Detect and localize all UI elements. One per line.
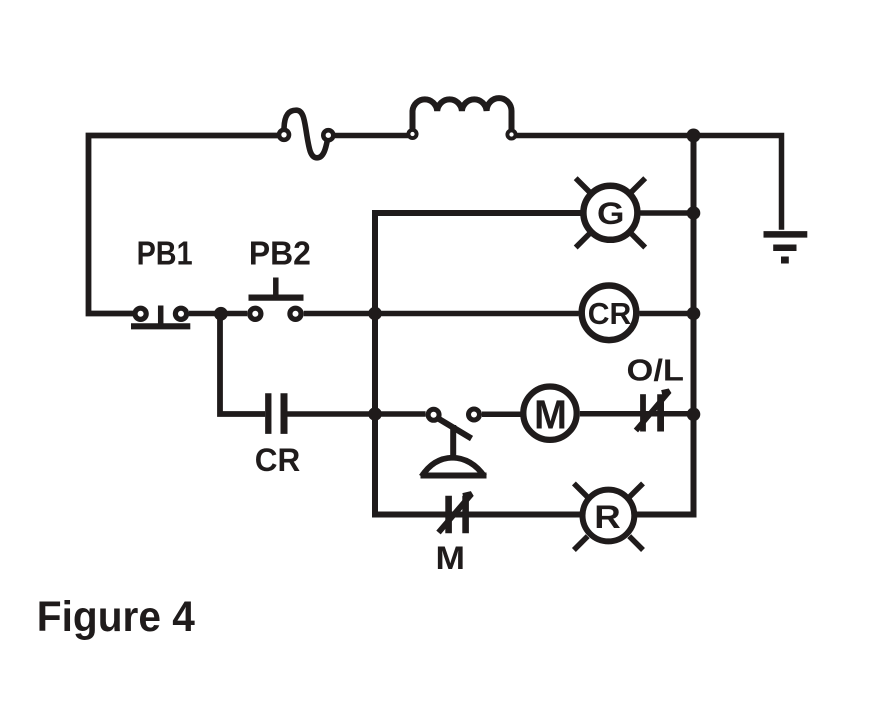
svg-text:CR: CR (588, 296, 632, 331)
svg-text:G: G (597, 195, 625, 231)
svg-text:CR: CR (255, 442, 300, 478)
svg-text:M: M (436, 540, 466, 576)
svg-text:O/L: O/L (627, 352, 685, 387)
svg-text:PB1: PB1 (137, 234, 193, 271)
svg-text:PB2: PB2 (249, 236, 311, 273)
svg-text:R: R (594, 499, 621, 535)
svg-text:Figure 4: Figure 4 (37, 594, 195, 641)
svg-text:M: M (534, 392, 567, 438)
